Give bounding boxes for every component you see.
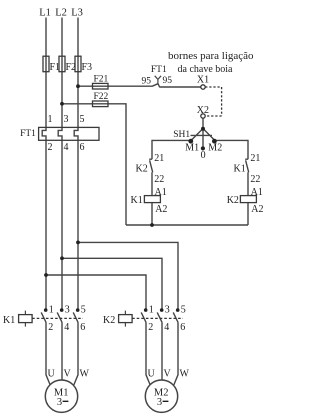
svg-text:4: 4 — [64, 322, 69, 333]
svg-text:6: 6 — [80, 322, 85, 333]
svg-text:5: 5 — [80, 114, 85, 125]
svg-text:K1: K1 — [3, 315, 15, 326]
svg-text:F1: F1 — [50, 62, 61, 73]
svg-text:F22: F22 — [94, 92, 109, 102]
svg-text:2: 2 — [48, 142, 53, 153]
svg-text:1: 1 — [149, 305, 154, 316]
svg-text:5: 5 — [81, 305, 86, 316]
svg-text:X1: X1 — [197, 75, 209, 86]
svg-text:M1: M1 — [185, 142, 199, 153]
svg-text:F21: F21 — [94, 74, 109, 84]
svg-text:5: 5 — [181, 305, 186, 316]
svg-text:3: 3 — [165, 305, 170, 316]
svg-text:SH1: SH1 — [173, 130, 190, 140]
svg-text:3: 3 — [157, 397, 162, 408]
svg-text:V: V — [64, 368, 72, 379]
svg-text:6: 6 — [80, 142, 85, 153]
svg-text:0: 0 — [201, 150, 206, 161]
svg-text:L1: L1 — [39, 8, 51, 19]
svg-text:A1: A1 — [155, 187, 167, 198]
svg-text:A2: A2 — [251, 204, 263, 215]
svg-text:21: 21 — [250, 153, 260, 164]
svg-text:1: 1 — [49, 305, 54, 316]
svg-text:K2: K2 — [103, 315, 115, 326]
svg-text:FT1: FT1 — [151, 65, 167, 75]
svg-text:3: 3 — [57, 397, 62, 408]
svg-text:2: 2 — [48, 322, 53, 333]
svg-text:F2: F2 — [66, 62, 77, 73]
svg-text:M2: M2 — [208, 142, 222, 153]
svg-text:4: 4 — [64, 142, 69, 153]
svg-text:A2: A2 — [155, 204, 167, 215]
svg-text:F3: F3 — [82, 62, 93, 73]
svg-text:U: U — [148, 368, 156, 379]
svg-text:2: 2 — [148, 322, 153, 333]
svg-text:W: W — [180, 368, 190, 379]
svg-text:X2: X2 — [197, 105, 209, 116]
svg-text:V: V — [164, 368, 172, 379]
svg-text:1: 1 — [48, 114, 53, 125]
svg-text:da chave boia: da chave boia — [178, 64, 234, 75]
svg-text:L3: L3 — [71, 8, 83, 19]
svg-text:4: 4 — [164, 322, 169, 333]
svg-text:W: W — [80, 368, 90, 379]
svg-text:FT1: FT1 — [20, 129, 36, 139]
svg-text:K1: K1 — [234, 164, 246, 175]
svg-text:22: 22 — [250, 174, 260, 185]
svg-text:U: U — [48, 368, 56, 379]
svg-text:A1: A1 — [251, 187, 263, 198]
svg-text:K2: K2 — [136, 164, 148, 175]
svg-text:6: 6 — [180, 322, 185, 333]
svg-text:22: 22 — [154, 174, 164, 185]
svg-text:95: 95 — [163, 76, 173, 86]
svg-text:95: 95 — [142, 76, 152, 86]
svg-text:K2: K2 — [227, 195, 239, 206]
svg-text:bornes para ligação: bornes para ligação — [168, 50, 254, 62]
svg-text:3: 3 — [65, 305, 70, 316]
svg-text:L2: L2 — [55, 8, 67, 19]
svg-text:21: 21 — [154, 153, 164, 164]
svg-text:K1: K1 — [131, 195, 143, 206]
svg-text:3: 3 — [64, 114, 69, 125]
